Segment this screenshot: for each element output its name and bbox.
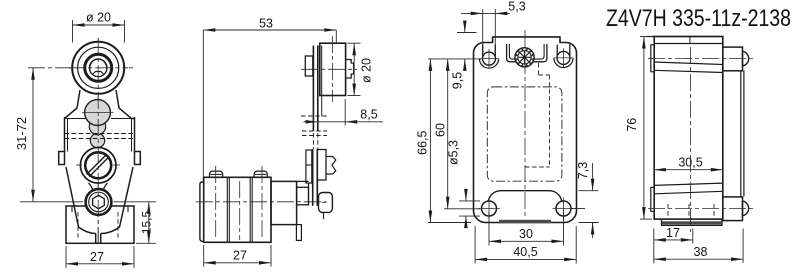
svg-text:40,5: 40,5 <box>513 245 537 259</box>
svg-text:53: 53 <box>259 17 273 31</box>
svg-text:27: 27 <box>90 250 104 264</box>
svg-text:ø 20: ø 20 <box>86 11 111 25</box>
svg-text:9,5: 9,5 <box>450 72 464 89</box>
svg-text:5,3: 5,3 <box>508 0 525 14</box>
svg-text:66,5: 66,5 <box>416 130 430 154</box>
svg-text:27: 27 <box>233 249 247 263</box>
svg-text:38: 38 <box>694 245 708 259</box>
svg-text:17: 17 <box>666 226 680 240</box>
svg-text:30,5: 30,5 <box>678 156 702 170</box>
svg-text:ø 20: ø 20 <box>360 58 374 83</box>
svg-text:31-72: 31-72 <box>14 117 29 150</box>
svg-text:ø5,3: ø5,3 <box>447 140 461 165</box>
svg-text:Z4V7H 335-11z-2138: Z4V7H 335-11z-2138 <box>606 5 791 32</box>
svg-text:15,5: 15,5 <box>140 210 154 234</box>
svg-text:8,5: 8,5 <box>360 108 377 122</box>
svg-text:60: 60 <box>433 123 447 137</box>
svg-text:30: 30 <box>519 227 533 241</box>
svg-text:76: 76 <box>625 118 639 132</box>
svg-text:7,3: 7,3 <box>576 162 590 179</box>
